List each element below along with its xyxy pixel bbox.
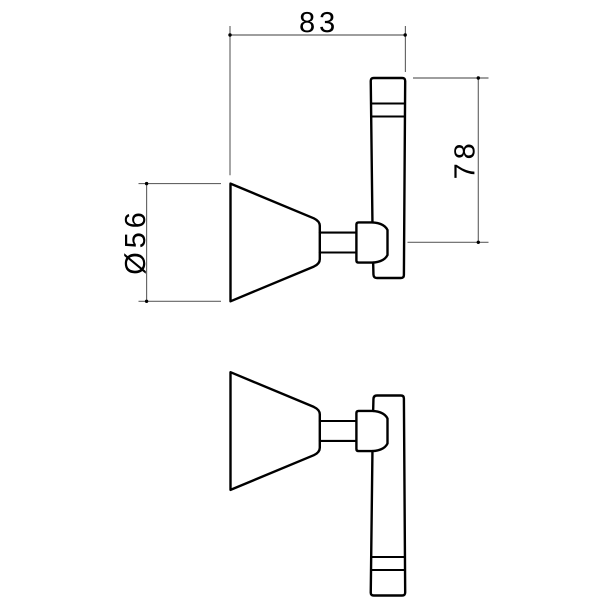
dim dot 83 right <box>404 33 407 36</box>
lever grip ring lines (top view) <box>371 104 405 117</box>
dim dot 56 top <box>145 182 148 185</box>
dim dot 78 bottom <box>477 241 480 244</box>
dim dot 78 top <box>477 76 480 79</box>
spindle stem (bottom view) <box>320 421 357 441</box>
dim text Ø56 <box>124 213 146 273</box>
hub block with bulge (bottom view) <box>356 411 387 451</box>
cone flange (bottom view) <box>231 372 320 490</box>
dim line 56 <box>146 184 148 302</box>
ext line 56 bottom <box>139 300 222 302</box>
hub block with bulge (top view) <box>356 222 387 262</box>
cone flange (top view) <box>231 184 320 302</box>
ext line 83 right <box>404 26 406 72</box>
dim line 83 <box>230 34 405 36</box>
dim text 78 <box>454 145 475 178</box>
lever bar (top view, points up) <box>371 78 405 278</box>
lever bar (bottom view, points down) <box>371 396 405 596</box>
dim dot 56 bottom <box>145 300 148 303</box>
dim text 83 <box>300 12 334 33</box>
ext line 78 top <box>413 77 489 79</box>
lever grip ring lines (bottom view) <box>371 557 405 570</box>
ext line 83 left <box>229 26 231 175</box>
dim dot 83 left <box>228 33 231 36</box>
ext line 56 top <box>139 183 222 185</box>
dim line 78 <box>477 78 479 242</box>
spindle stem (top view) <box>320 233 357 253</box>
ext line 78 bottom <box>408 241 489 243</box>
